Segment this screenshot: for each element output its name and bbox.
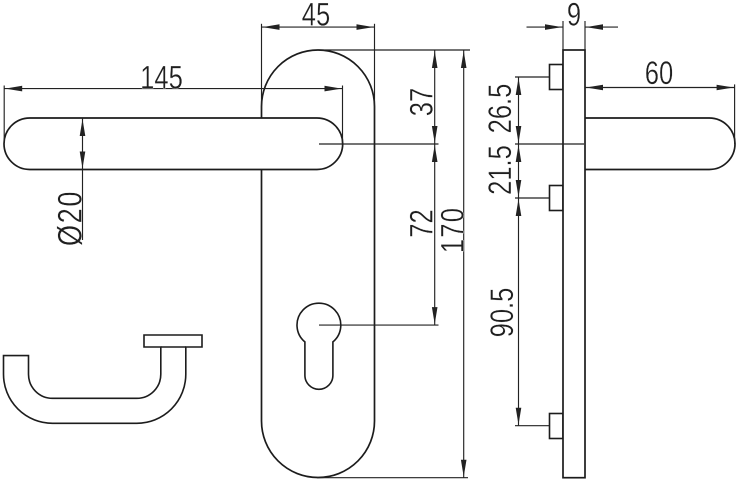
dimension 37 arrow up xyxy=(432,51,438,68)
dimension 45 extension line left xyxy=(261,24,263,110)
svg-text:9: 9 xyxy=(567,0,581,33)
dimension 60 arrow right xyxy=(717,85,734,91)
svg-text:21.5: 21.5 xyxy=(483,145,518,195)
dimension 90.5 arrow up xyxy=(516,199,522,216)
dimension 45 arrow right xyxy=(357,24,374,30)
dimension 45 arrow left xyxy=(263,24,280,30)
side view backplate xyxy=(563,50,585,478)
svg-text:145: 145 xyxy=(140,61,183,96)
dimension 145 extension line right xyxy=(342,86,344,144)
svg-text:90.5: 90.5 xyxy=(485,288,520,338)
dimension 45 extension line right xyxy=(374,24,376,110)
dimension 60 arrow left xyxy=(586,85,603,91)
fixing screw 1 xyxy=(550,65,564,90)
dimension 21.5 arrow up xyxy=(516,145,522,162)
dimension 72 arrow down xyxy=(432,307,438,324)
dimension 145 arrow right xyxy=(325,86,342,92)
fixing screw 2 xyxy=(550,186,564,211)
dimension 170 arrow up xyxy=(461,51,467,68)
euro cylinder keyhole xyxy=(297,303,341,389)
dimension 45 line xyxy=(262,26,375,28)
plate bottom extension line xyxy=(317,477,468,479)
dimension 145 extension line left xyxy=(3,86,5,144)
dimension D20 arrow up xyxy=(80,119,86,136)
dimension 60 line xyxy=(585,87,735,89)
screw 3 leader xyxy=(515,425,550,427)
svg-text:60: 60 xyxy=(645,56,673,91)
lever bar front view xyxy=(4,118,343,170)
dimension 170 arrow down xyxy=(461,460,467,477)
handle profile flange bottom edge xyxy=(161,346,186,348)
dimension 26.5-21.5-90.5 line xyxy=(518,77,520,426)
dimension 9 extension line left xyxy=(562,21,564,50)
dimension 9 arrow right xyxy=(586,24,603,30)
screw 1 leader xyxy=(515,76,550,78)
dimension 26.5 arrow down xyxy=(516,126,522,143)
keyhole centre leader xyxy=(319,324,439,326)
dimension 90.5 arrow down xyxy=(516,408,522,425)
backplate front view xyxy=(262,50,375,478)
dimension 9 arrow left xyxy=(545,24,562,30)
svg-text:37: 37 xyxy=(405,88,440,116)
dimension 9 extension line right xyxy=(584,21,586,50)
lever bar centre leader xyxy=(319,143,439,145)
dimension 26.5 arrow up xyxy=(516,78,522,95)
fixing screw 3 xyxy=(550,414,564,439)
dimension 37 arrow down xyxy=(432,126,438,143)
dimension 37-72 line xyxy=(434,50,436,325)
dimension D20 arrow down xyxy=(80,152,86,169)
svg-text:45: 45 xyxy=(302,0,330,33)
plate top extension line xyxy=(319,49,470,51)
screw 2 leader xyxy=(515,197,550,199)
side handle centre leader xyxy=(515,143,584,145)
dimension 170 line xyxy=(463,50,465,478)
handle profile view (bottom left) xyxy=(4,335,203,423)
dimension 21.5 arrow down xyxy=(516,180,522,197)
dimension 145 line xyxy=(4,88,342,90)
dimension D20 line xyxy=(82,118,84,240)
dimension 72 arrow up xyxy=(432,145,438,162)
svg-text:26.5: 26.5 xyxy=(483,84,518,134)
side view handle stub xyxy=(585,118,735,170)
svg-text:170: 170 xyxy=(436,207,471,253)
dimension 145 arrow left xyxy=(5,86,22,92)
svg-text:Ø20: Ø20 xyxy=(51,190,90,246)
dimension 60 extension line xyxy=(734,84,736,144)
dimension 9 tail right xyxy=(585,26,618,28)
dimension 9 tail left xyxy=(527,26,564,28)
